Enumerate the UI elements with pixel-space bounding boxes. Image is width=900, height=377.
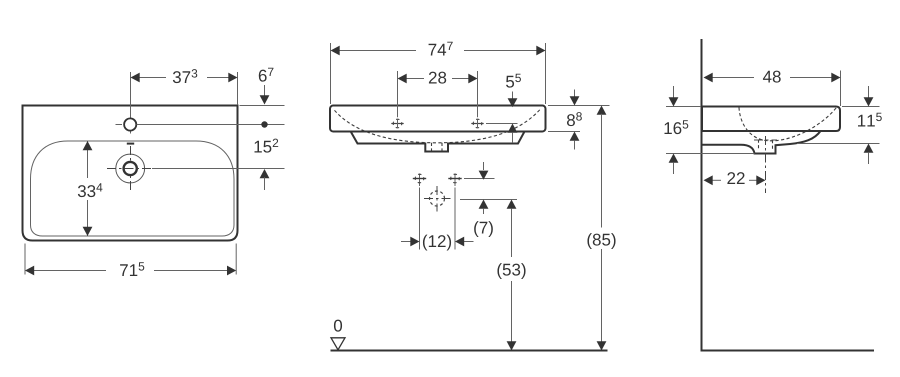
dimension 37.3 line — [139, 77, 167, 79]
siphon center line horizontal — [424, 198, 451, 200]
dimension 48 line — [712, 77, 754, 79]
dimension 71.5 extension lines — [24, 244, 26, 275]
dimension (12) arrows (outside) — [401, 241, 411, 243]
siphon center line vertical — [436, 186, 438, 212]
drain inner circle — [124, 162, 137, 175]
trap bottom reference line (16.5 dim) — [666, 153, 755, 155]
dimension 71.5 label — [120, 262, 144, 276]
dimension 28 extension lines (to faucet holes) — [397, 71, 399, 117]
basin slab (side view) — [702, 107, 840, 132]
dimension 37.3 arrows — [131, 73, 140, 83]
dimension 15.2 label — [255, 139, 279, 153]
basin apron outline (front view) — [351, 132, 525, 152]
bowl hidden contour (dashed, side view) — [739, 108, 837, 141]
faucet hole left tick — [116, 124, 123, 126]
bowl hidden contour (dashed) — [335, 110, 541, 143]
dimension 22 arrows — [704, 175, 713, 185]
dimension 48 arrows — [704, 73, 713, 83]
dimension 22 line — [712, 179, 721, 181]
apron bottom extension right (11.5 dim) — [797, 143, 880, 145]
faucet reference line (5.5 dim) — [486, 123, 518, 125]
dimension 16.5 label — [665, 120, 689, 134]
dimension 11.5 arrow up — [864, 144, 874, 153]
faucet hole symbol right (front view) — [473, 119, 482, 128]
dimension (7) arrow down — [483, 162, 485, 170]
dimension 6.7 label — [259, 68, 274, 82]
dimension 71.5 line — [33, 270, 106, 272]
dimension (53) line — [507, 200, 517, 209]
dimension 71.5 arrows — [25, 266, 34, 276]
dimension 5.5 arrow up — [508, 124, 518, 133]
dimension (85) label — [587, 233, 615, 249]
drain reference line to right (15.2 dim) — [152, 168, 285, 170]
dimension 16.5 arrow up — [669, 154, 679, 163]
datum zero label — [334, 320, 342, 332]
dimension 33.4 line — [87, 141, 89, 178]
dimension 48 label — [763, 71, 781, 83]
dimension 28 label — [429, 72, 446, 84]
drain center line vertical (side view) — [765, 136, 767, 193]
dimension 74.7 label — [429, 42, 453, 56]
mounting holes reference line (7 dim top) — [464, 178, 495, 180]
dimension 33.4 arrows — [83, 141, 93, 150]
drain center line vertical — [130, 146, 132, 191]
dimension 5.5 label — [506, 74, 521, 88]
basin apron and trap (side view) — [702, 131, 821, 154]
drain center tick horizontal — [754, 139, 777, 141]
basin body (front view) — [330, 106, 546, 132]
dimension (85) line — [597, 106, 607, 115]
drain pipe hidden lines (dashed) — [758, 140, 760, 151]
dimension 8.8 arrow down — [574, 90, 576, 98]
faucet hole symbol left (front view) — [393, 119, 402, 128]
top edge extension left of wall (16.5 dim) — [666, 106, 701, 108]
datum triangle — [331, 338, 345, 350]
dimension (7) arrow up — [479, 200, 489, 209]
top edge extension line (6.7 dim) — [240, 105, 285, 107]
wall line — [701, 39, 703, 351]
dimension 8.8 extension top / (85) top reference — [548, 105, 610, 107]
dimension 28 line — [406, 78, 424, 80]
extension line faucet center (37.3 dim) — [130, 72, 132, 134]
floor line (side view) — [701, 350, 875, 352]
drain outer circle — [116, 154, 145, 183]
basin inner rim (top view) — [31, 141, 235, 236]
dimension 6.7/15.2 reference dot — [261, 121, 267, 127]
dimension 5.5 arrow down — [512, 92, 514, 99]
dimension 11.5 arrow down — [868, 86, 870, 98]
dimension 22 label — [727, 172, 744, 184]
drain hidden lines (dashed) — [431, 143, 433, 151]
faucet hole circle (top view) — [124, 118, 136, 130]
mounting hole symbol left — [415, 174, 424, 183]
dimension 28 arrows — [398, 74, 407, 84]
dimension 6.7 arrow (down) — [264, 85, 266, 97]
siphon hole (dashed circle) — [430, 191, 445, 206]
dimension 16.5 arrow down — [673, 86, 675, 98]
siphon reference line ((7)/(53) dim) — [460, 199, 517, 201]
mounting hole extension line right — [454, 174, 456, 187]
mounting hole extension line left — [419, 174, 421, 187]
dimension (7) label — [474, 221, 493, 237]
faucet center line to right (6.7/15.2 reference) — [137, 124, 285, 126]
floor line (middle view) — [331, 350, 608, 352]
dimension 8.8 arrow up — [570, 132, 580, 141]
top edge extension right (11.5 dim) — [842, 106, 880, 108]
dimension 74.7 arrows — [331, 46, 340, 56]
dimension (53) label — [497, 263, 525, 279]
dimension 37.3: extension line right — [237, 72, 239, 105]
dimension (12) label — [423, 235, 451, 251]
mounting hole symbol right — [451, 174, 460, 183]
dimension 48 extension line right — [840, 71, 842, 107]
dimension 8.8 extension bottom — [548, 131, 580, 133]
dimension 74.7 line — [339, 50, 416, 52]
dimension 37.3 label — [173, 69, 197, 83]
dimension 11.5 label — [858, 113, 882, 127]
dimension 74.7 extension lines — [330, 43, 332, 104]
dimension 8.8 label — [567, 112, 582, 126]
dimension 33.4 label — [78, 183, 103, 197]
center line tick below rim — [127, 143, 134, 145]
basin outer outline (top view) — [23, 106, 238, 241]
dimension 15.2 arrow (up) — [260, 169, 270, 178]
drain center line horizontal — [107, 168, 152, 170]
